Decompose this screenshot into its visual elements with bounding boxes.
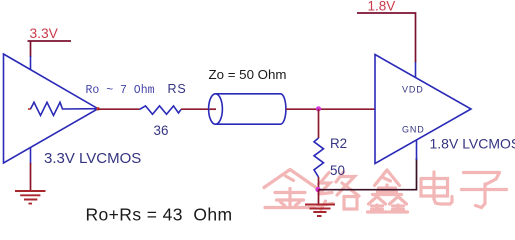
resistor Ro (inside U1) — [28, 102, 98, 115]
svg-text:GND: GND — [402, 124, 425, 134]
pin stub GND of U2 — [416, 140, 418, 160]
wire GND net to U2 GND pin — [319, 158, 417, 190]
svg-text:VDD: VDD — [402, 84, 424, 94]
node R2 bottom (magenta) — [315, 187, 320, 192]
pin stub VDD of U1 — [30, 56, 32, 70]
watermark text 金络鑫电子 — [264, 170, 507, 213]
wire stub inside TL ellipse — [210, 108, 217, 110]
pin stub GND of U1 — [30, 147, 32, 164]
svg-text:50: 50 — [330, 163, 345, 178]
svg-text:Ro+Rs = 43 Ohm: Ro+Rs = 43 Ohm — [86, 204, 233, 224]
resistor RS — [140, 106, 182, 114]
wire junction down to R2 — [318, 109, 320, 138]
鑫 — [375, 170, 400, 186]
resistor R2 — [314, 138, 324, 177]
svg-text:Zo = 50 Ohm: Zo = 50 Ohm — [209, 67, 287, 82]
wire U1 GND pin to ground — [30, 163, 32, 191]
ground (right) — [305, 205, 335, 217]
power rail 1.8V wire — [357, 13, 416, 62]
金 — [264, 170, 316, 188]
pin stub VDD of U2 — [415, 61, 417, 78]
svg-text:3.3V LVCMOS: 3.3V LVCMOS — [44, 150, 141, 167]
电 — [421, 172, 448, 199]
wire RS to transmission line — [181, 108, 214, 110]
wire U1 output to RS — [98, 108, 140, 110]
op-amp U2 (1.8V LVCMOS receiver) triangle — [375, 55, 471, 164]
transmission line TL1 (coax cylinder) — [209, 94, 286, 124]
svg-text:1.8V: 1.8V — [368, 0, 396, 13]
子 — [462, 173, 507, 208]
svg-text:Ro ~ 7 Ohm: Ro ~ 7 Ohm — [86, 84, 155, 97]
wire R2 to ground node — [318, 177, 320, 190]
node junction (magenta) — [316, 106, 321, 111]
svg-text:1.8V LVCMOS: 1.8V LVCMOS — [430, 136, 515, 152]
络 — [318, 173, 333, 210]
svg-text:3.3V: 3.3V — [30, 26, 59, 41]
op-amp U1 (3.3V LVCMOS driver) triangle — [4, 54, 99, 163]
wire down to ground (right) — [318, 190, 320, 205]
wire TL to junction to U2 input — [286, 108, 375, 110]
svg-text:R2: R2 — [330, 136, 347, 151]
svg-text:RS: RS — [168, 82, 187, 96]
power rail 3.3V wire — [28, 41, 72, 57]
svg-text:36: 36 — [154, 123, 169, 138]
ground (left) — [15, 191, 46, 204]
node at U1 output — [96, 107, 99, 110]
